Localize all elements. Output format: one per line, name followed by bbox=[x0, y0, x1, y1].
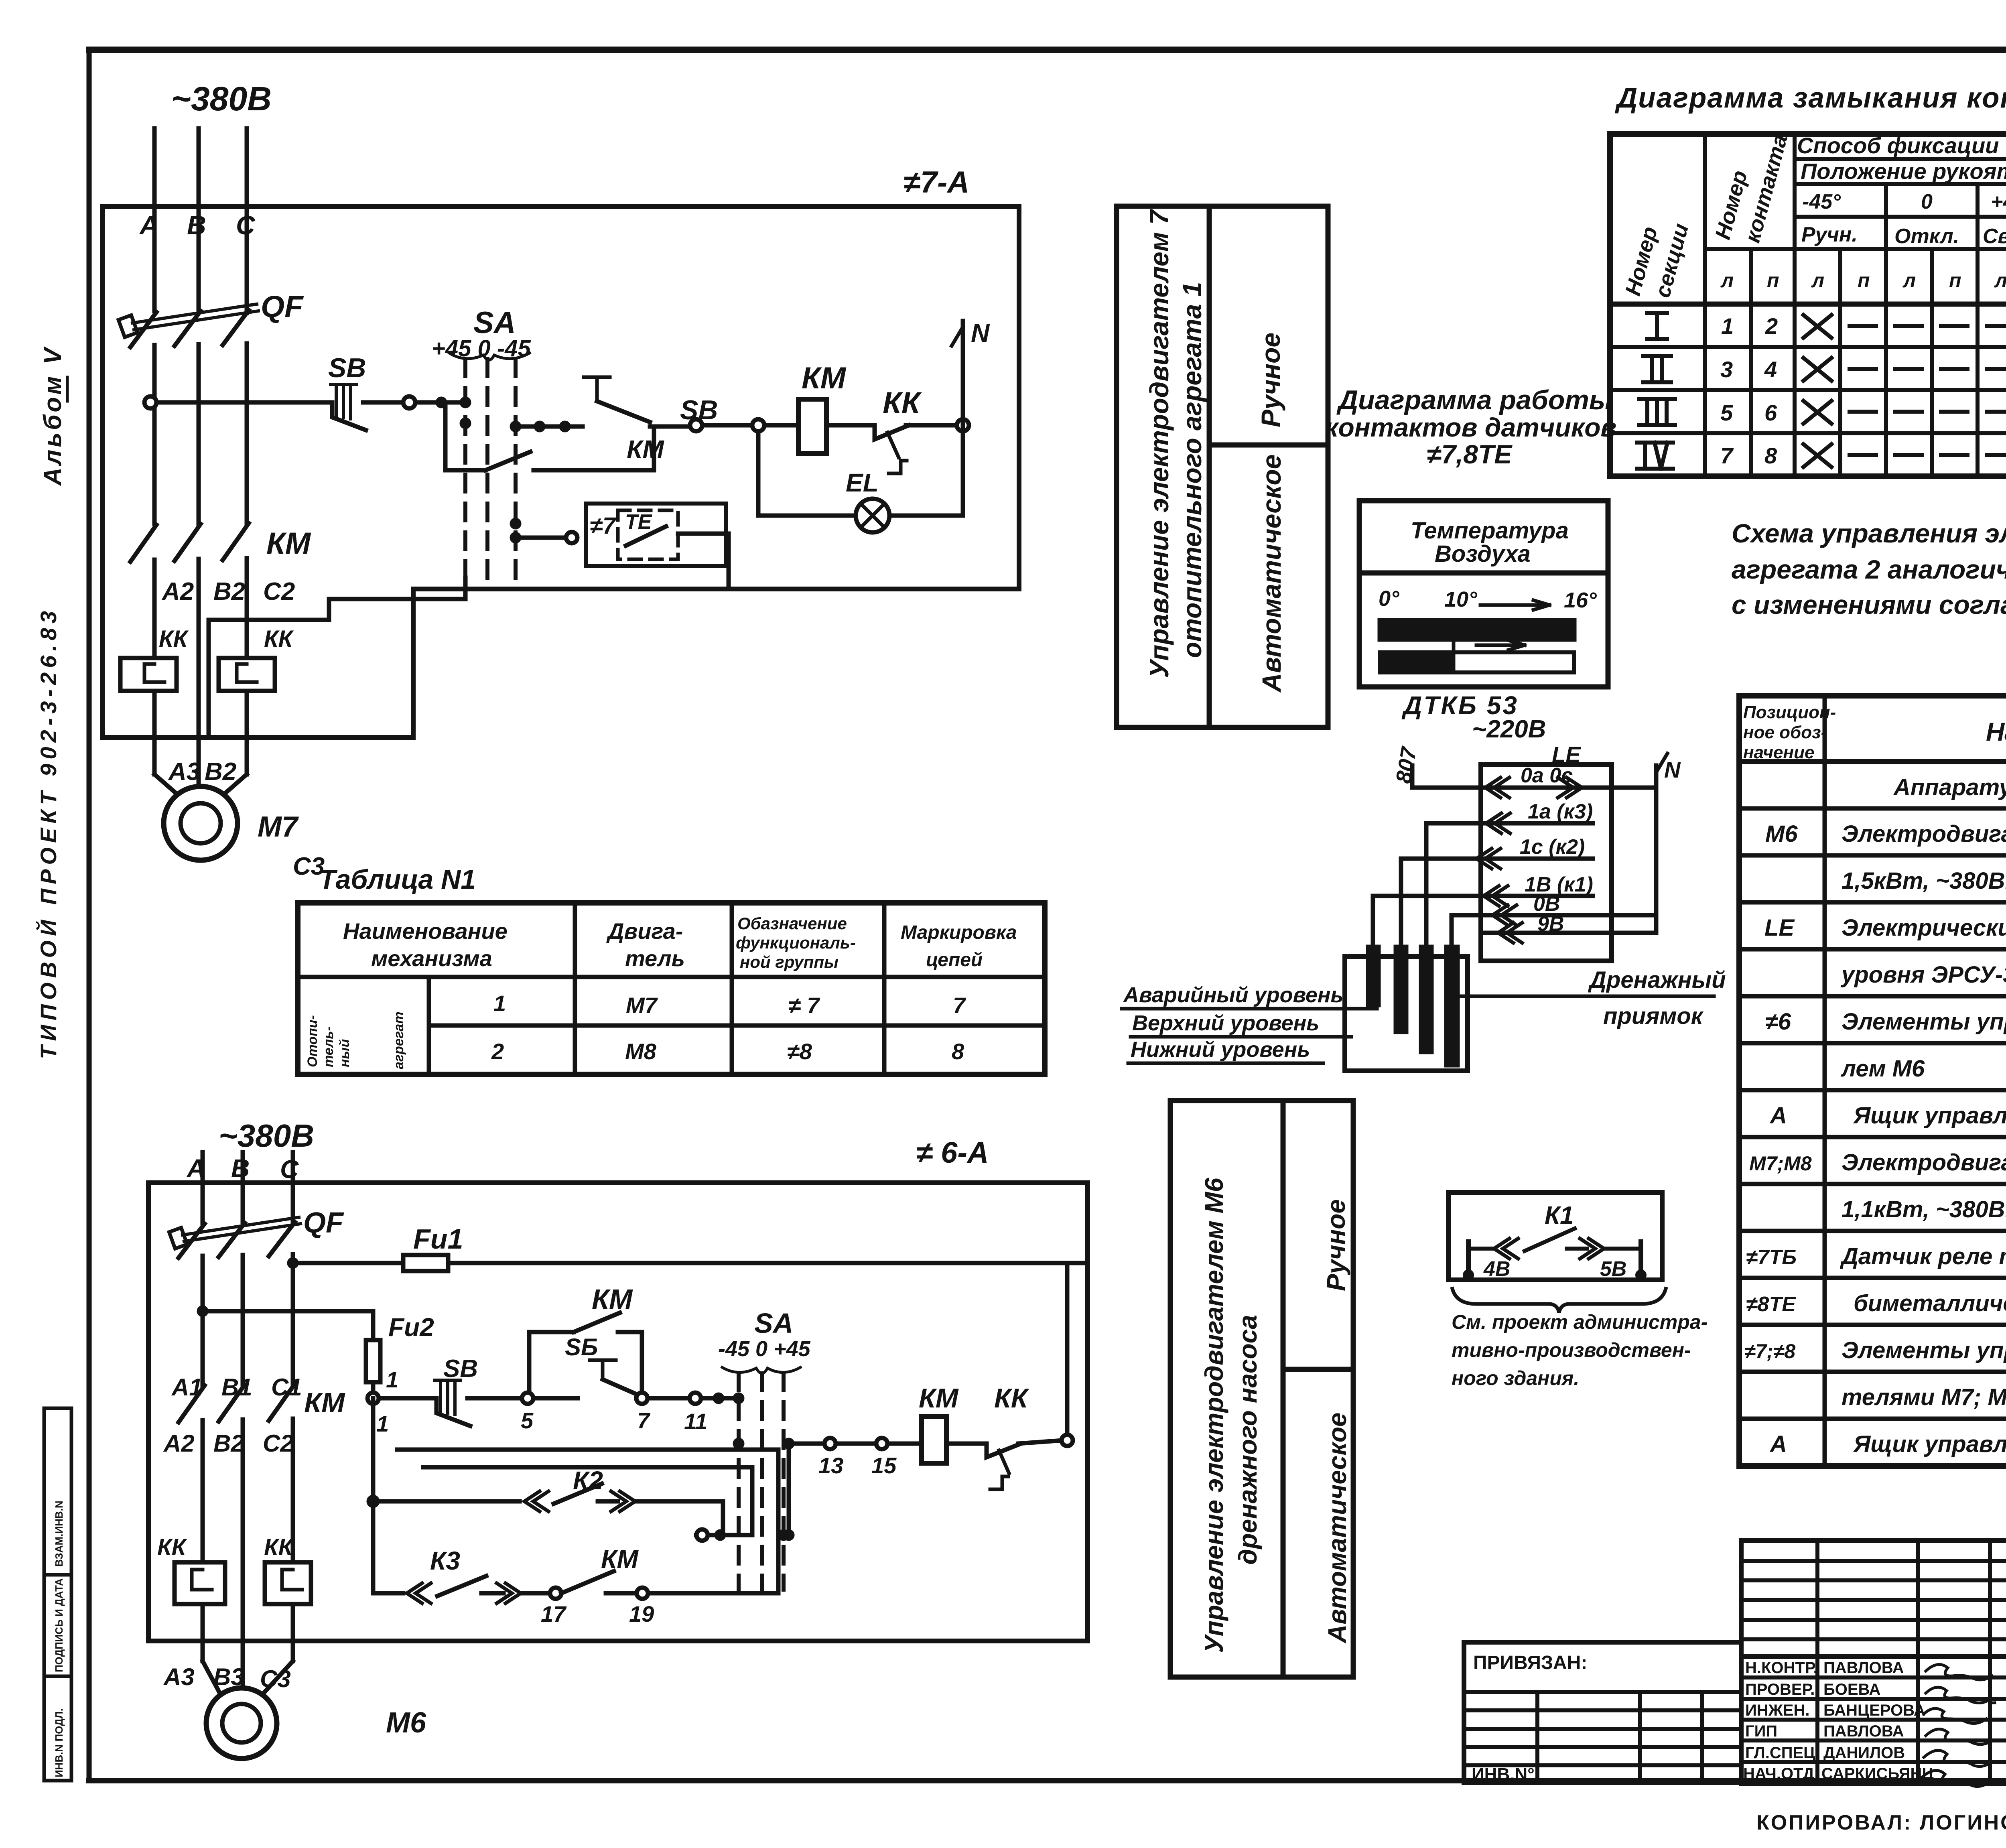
svg-text:К3: К3 bbox=[430, 1546, 460, 1575]
svg-text:11: 11 bbox=[684, 1409, 707, 1434]
svg-text:≠7: ≠7 bbox=[590, 513, 617, 539]
svg-text:SA: SA bbox=[754, 1308, 793, 1339]
svg-text:1,1кВт, ~380В.: 1,1кВт, ~380В. bbox=[1842, 1196, 2006, 1223]
svg-text:1: 1 bbox=[493, 991, 506, 1016]
svg-text:Наименование: Наименование bbox=[1986, 717, 2006, 746]
svg-text:Ручное: Ручное bbox=[1256, 333, 1285, 427]
svg-text:Ящик управления ЯУ 5113-03 А2: Ящик управления ЯУ 5113-03 А2Н bbox=[1853, 1431, 2006, 1457]
svg-text:15: 15 bbox=[871, 1453, 897, 1478]
svg-text:КК: КК bbox=[883, 386, 922, 420]
svg-text:агрегат: агрегат bbox=[391, 1011, 406, 1069]
svg-text:А: А bbox=[1769, 1431, 1787, 1457]
svg-text:В2: В2 bbox=[205, 758, 236, 786]
svg-text:контактов датчиков: контактов датчиков bbox=[1325, 412, 1616, 442]
svg-text:ный: ный bbox=[337, 1039, 352, 1067]
svg-text:3: 3 bbox=[1720, 357, 1733, 382]
svg-text:ИНЖЕН.: ИНЖЕН. bbox=[1745, 1702, 1809, 1719]
svg-text:А: А bbox=[186, 1154, 205, 1183]
svg-text:М6: М6 bbox=[1765, 821, 1798, 847]
svg-text:≠ 6-А: ≠ 6-А bbox=[916, 1136, 989, 1169]
svg-text:С: С bbox=[236, 210, 256, 240]
svg-text:Элементы управления электродви: Элементы управления электродвига- bbox=[1842, 1337, 2006, 1363]
svg-text:~220В: ~220В bbox=[1472, 715, 1546, 743]
svg-text:уровня ЭРСУ-3: уровня ЭРСУ-3 bbox=[1840, 962, 2006, 988]
svg-text:функциональ-: функциональ- bbox=[736, 933, 856, 952]
svg-text:п: п bbox=[1858, 269, 1870, 292]
svg-text:Наименование: Наименование bbox=[343, 918, 508, 944]
svg-text:ПРОВЕР.: ПРОВЕР. bbox=[1745, 1681, 1815, 1698]
svg-text:EL: EL bbox=[846, 468, 879, 497]
svg-text:SA: SA bbox=[473, 306, 516, 340]
svg-text:5В: 5В bbox=[1600, 1257, 1626, 1281]
svg-text:В1: В1 bbox=[221, 1374, 252, 1401]
svg-text:А2: А2 bbox=[163, 1430, 195, 1457]
svg-text:≠7,8ТЕ: ≠7,8ТЕ bbox=[1427, 439, 1513, 469]
svg-text:Позицион-: Позицион- bbox=[1743, 703, 1836, 722]
svg-text:телями М7; М8.: телями М7; М8. bbox=[1842, 1384, 2006, 1410]
svg-text:0а 0с: 0а 0с bbox=[1521, 764, 1573, 787]
svg-text:КК: КК bbox=[159, 626, 189, 652]
svg-text:цепей: цепей bbox=[926, 949, 983, 971]
svg-text:17: 17 bbox=[541, 1601, 567, 1627]
svg-text:В2: В2 bbox=[213, 578, 245, 605]
svg-text:Способ фиксации С: Способ фиксации С bbox=[1797, 133, 2006, 158]
svg-text:ТЕ: ТЕ bbox=[625, 510, 652, 534]
svg-text:Дренажный: Дренажный bbox=[1588, 967, 1726, 993]
svg-text:ПОДПИСЬ И ДАТА: ПОДПИСЬ И ДАТА bbox=[53, 1578, 65, 1672]
svg-text:Fu1: Fu1 bbox=[413, 1223, 463, 1255]
svg-text:ИНВ.N°: ИНВ.N° bbox=[1472, 1765, 1535, 1784]
svg-text:1,5кВт, ~380В.: 1,5кВт, ~380В. bbox=[1842, 868, 2006, 894]
svg-text:4В: 4В bbox=[1483, 1257, 1510, 1281]
svg-text:4: 4 bbox=[1764, 357, 1777, 382]
svg-text:+45°: +45° bbox=[1991, 190, 2006, 213]
svg-text:л: л bbox=[1902, 269, 1916, 292]
svg-text:1: 1 bbox=[1721, 313, 1734, 339]
svg-text:~380В: ~380В bbox=[219, 1118, 314, 1153]
svg-text:Положение рукоятки: Положение рукоятки bbox=[1801, 158, 2006, 184]
svg-text:1: 1 bbox=[386, 1367, 398, 1392]
svg-text:В: В bbox=[187, 210, 206, 240]
svg-text:Двига-: Двига- bbox=[606, 918, 683, 944]
svg-text:Электродвигатель типа АО2-12-2: Электродвигатель типа АО2-12-2 bbox=[1842, 1149, 2006, 1176]
svg-text:САРКИСЬЯНЦ: САРКИСЬЯНЦ bbox=[1821, 1765, 1934, 1783]
svg-text:Маркировка: Маркировка bbox=[901, 922, 1017, 943]
svg-text:Н.КОНТР.: Н.КОНТР. bbox=[1745, 1659, 1818, 1677]
svg-text:Диаграмма замыкания контактов: Диаграмма замыкания контактов переключат… bbox=[1614, 82, 2006, 114]
svg-text:Схема управления электродвиг: Схема управления электродвигателем М8 от… bbox=[1732, 518, 2006, 548]
svg-text:КМ: КМ bbox=[802, 361, 847, 395]
svg-text:л: л bbox=[1720, 269, 1734, 292]
svg-text:N: N bbox=[1664, 757, 1681, 782]
svg-text:БАНЦЕРОВА: БАНЦЕРОВА bbox=[1823, 1702, 1925, 1719]
svg-text:ИНВ.N ПОДЛ.: ИНВ.N ПОДЛ. bbox=[53, 1708, 65, 1777]
svg-text:С: С bbox=[280, 1155, 299, 1184]
svg-text:ВЗАМ.ИНВ.N: ВЗАМ.ИНВ.N bbox=[53, 1501, 65, 1567]
svg-text:А3: А3 bbox=[163, 1663, 195, 1690]
svg-text:19: 19 bbox=[629, 1601, 654, 1627]
svg-text:≠ 7: ≠ 7 bbox=[788, 993, 820, 1018]
svg-text:механизма: механизма bbox=[371, 946, 492, 971]
svg-text:Отопи-: Отопи- bbox=[305, 1015, 320, 1067]
svg-text:7: 7 bbox=[953, 993, 966, 1018]
svg-text:п: п bbox=[1767, 269, 1779, 292]
svg-text:13: 13 bbox=[818, 1453, 843, 1478]
svg-text:А: А bbox=[1769, 1103, 1787, 1129]
svg-text:КМ: КМ bbox=[919, 1383, 959, 1413]
svg-text:≠8ТЕ: ≠8ТЕ bbox=[1746, 1293, 1796, 1316]
svg-text:М8: М8 bbox=[625, 1039, 657, 1064]
svg-text:Аппаратура по месту: Аппаратура по месту bbox=[1893, 774, 2006, 800]
svg-text:А3: А3 bbox=[168, 758, 200, 786]
svg-text:Верхний уровень: Верхний уровень bbox=[1132, 1011, 1319, 1035]
svg-text:В2: В2 bbox=[213, 1430, 244, 1457]
svg-text:М7;М8: М7;М8 bbox=[1749, 1152, 1812, 1175]
svg-text:≠8: ≠8 bbox=[787, 1039, 812, 1064]
svg-text:Воздуха: Воздуха bbox=[1435, 541, 1531, 567]
svg-text:л: л bbox=[1994, 269, 2006, 292]
svg-text:С1: С1 bbox=[271, 1374, 302, 1401]
svg-text:М7: М7 bbox=[258, 811, 299, 843]
svg-text:~380В: ~380В bbox=[171, 80, 272, 118]
svg-text:6: 6 bbox=[1764, 400, 1777, 425]
svg-text:К1: К1 bbox=[1545, 1202, 1574, 1229]
svg-text:С3: С3 bbox=[260, 1665, 291, 1692]
svg-text:БОЕВА: БОЕВА bbox=[1823, 1681, 1880, 1698]
svg-text:Fu2: Fu2 bbox=[388, 1313, 434, 1342]
svg-text:С2: С2 bbox=[263, 578, 295, 605]
svg-text:2: 2 bbox=[1765, 313, 1778, 339]
svg-text:Электрический регулятор-сигнал: Электрический регулятор-сигнализатор bbox=[1842, 915, 2006, 941]
svg-text:В3: В3 bbox=[213, 1663, 244, 1690]
svg-text:Аварийный уровень: Аварийный уровень bbox=[1123, 983, 1344, 1007]
svg-text:Альбом V: Альбом V bbox=[39, 345, 67, 486]
svg-text:LE: LE bbox=[1764, 915, 1795, 941]
svg-text:≠7;≠8: ≠7;≠8 bbox=[1744, 1340, 1795, 1363]
svg-text:Автоматическое: Автоматическое bbox=[1323, 1412, 1352, 1644]
svg-text:16°: 16° bbox=[1564, 588, 1597, 612]
svg-text:КК: КК bbox=[264, 626, 294, 652]
svg-text:НАЧ.ОТД: НАЧ.ОТД bbox=[1743, 1765, 1814, 1783]
svg-text:Ручн.: Ручн. bbox=[1801, 223, 1858, 246]
svg-text:SБ: SБ bbox=[565, 1334, 598, 1361]
svg-text:дренажного насоса: дренажного насоса bbox=[1233, 1315, 1262, 1565]
svg-text:ДАНИЛОВ: ДАНИЛОВ bbox=[1823, 1744, 1905, 1762]
svg-text:Обазначение: Обазначение bbox=[737, 914, 847, 933]
svg-text:КК: КК bbox=[264, 1534, 294, 1560]
svg-text:Нижний уровень: Нижний уровень bbox=[1131, 1038, 1310, 1062]
svg-text:В: В bbox=[231, 1154, 250, 1183]
svg-text:1а (к3): 1а (к3) bbox=[1528, 800, 1593, 823]
svg-text:тель: тель bbox=[625, 946, 685, 971]
svg-text:ПАВЛОВА: ПАВЛОВА bbox=[1823, 1659, 1904, 1677]
svg-text:КК: КК bbox=[157, 1534, 187, 1560]
svg-text:А1: А1 bbox=[171, 1374, 203, 1401]
svg-text:Ручное: Ручное bbox=[1322, 1199, 1350, 1291]
svg-text:≠7ТБ: ≠7ТБ bbox=[1746, 1246, 1797, 1269]
svg-text:с изменениями согласно табл: с изменениями согласно таблице N1 bbox=[1732, 590, 2006, 619]
svg-text:агрегата 2 аналогична схеме: агрегата 2 аналогична схеме управления а… bbox=[1732, 554, 2006, 584]
svg-text:М6: М6 bbox=[386, 1707, 426, 1739]
svg-text:807: 807 bbox=[1391, 744, 1421, 785]
svg-text:А2: А2 bbox=[161, 578, 194, 605]
svg-text:9В: 9В bbox=[1537, 912, 1564, 936]
svg-text:КМ: КМ bbox=[592, 1283, 633, 1315]
svg-text:Управление электродвигателем: Управление электродвигателем 7 bbox=[1144, 209, 1174, 678]
svg-text:лем М6: лем М6 bbox=[1840, 1056, 1925, 1082]
svg-text:л: л bbox=[1811, 269, 1824, 292]
svg-text:Откл.: Откл. bbox=[1894, 225, 1959, 248]
svg-text:отопительного агрегата 1: отопительного агрегата 1 bbox=[1177, 282, 1207, 658]
svg-text:Электродвигатель типа АОЛ2-22-: Электродвигатель типа АОЛ2-22-4 bbox=[1842, 821, 2006, 847]
svg-text:С2: С2 bbox=[263, 1430, 294, 1457]
svg-text:≠7-А: ≠7-А bbox=[904, 165, 969, 199]
svg-text:QF: QF bbox=[261, 290, 304, 324]
svg-text:КОПИРОВАЛ: ЛОГИНОВА: КОПИРОВАЛ: ЛОГИНОВА bbox=[1756, 1811, 2006, 1834]
svg-text:ТИПОВОЙ ПРОЕКТ 902-3-26.83: ТИПОВОЙ ПРОЕКТ 902-3-26.83 bbox=[36, 607, 61, 1059]
svg-text:1с (к2): 1с (к2) bbox=[1520, 835, 1585, 859]
svg-text:7: 7 bbox=[1720, 443, 1734, 468]
svg-text:LE: LE bbox=[1552, 742, 1581, 767]
svg-text:Датчик реле температуры камерн: Датчик реле температуры камерный bbox=[1840, 1243, 2006, 1269]
svg-text:5: 5 bbox=[1720, 400, 1733, 425]
svg-text:КМ: КМ bbox=[627, 435, 664, 464]
svg-text:-45°: -45° bbox=[1802, 190, 1841, 213]
svg-text:начение: начение bbox=[1743, 743, 1814, 762]
svg-text:Автоматическое: Автоматическое bbox=[1257, 455, 1286, 693]
svg-text:ГИП: ГИП bbox=[1745, 1722, 1777, 1740]
svg-text:2: 2 bbox=[491, 1039, 504, 1064]
svg-text:приямок: приямок bbox=[1603, 1003, 1704, 1029]
svg-text:≠6: ≠6 bbox=[1765, 1009, 1791, 1035]
svg-text:0°: 0° bbox=[1379, 587, 1399, 611]
svg-text:ной группы: ной группы bbox=[740, 952, 839, 971]
svg-text:Свлок.: Свлок. bbox=[1983, 225, 2006, 248]
svg-text:тель-: тель- bbox=[321, 1026, 336, 1067]
svg-text:КК: КК bbox=[994, 1383, 1029, 1413]
svg-text:0: 0 bbox=[1921, 190, 1933, 213]
svg-text:7: 7 bbox=[637, 1408, 651, 1433]
svg-text:А: А bbox=[139, 210, 159, 240]
svg-text:Температура: Температура bbox=[1411, 518, 1569, 544]
svg-text:8: 8 bbox=[952, 1039, 964, 1064]
svg-text:ного здания.: ного здания. bbox=[1452, 1367, 1579, 1389]
svg-text:QF: QF bbox=[303, 1207, 344, 1239]
svg-text:Таблица N1: Таблица N1 bbox=[319, 864, 476, 895]
svg-text:Диаграмма работы: Диаграмма работы bbox=[1336, 385, 1612, 415]
svg-text:+45 0 -45: +45 0 -45 bbox=[432, 335, 531, 361]
svg-text:КМ: КМ bbox=[266, 526, 311, 560]
svg-text:1: 1 bbox=[376, 1411, 389, 1436]
svg-text:8: 8 bbox=[1764, 443, 1777, 468]
svg-text:ГЛ.СПЕЦ.: ГЛ.СПЕЦ. bbox=[1745, 1744, 1820, 1762]
svg-text:К2: К2 bbox=[573, 1466, 603, 1495]
svg-text:10°: 10° bbox=[1444, 587, 1477, 611]
svg-text:п: п bbox=[1949, 269, 1961, 292]
svg-text:биметаллический ДТКБ-53: биметаллический ДТКБ-53 bbox=[1854, 1290, 2006, 1316]
svg-text:ное обоз-: ное обоз- bbox=[1743, 723, 1827, 742]
svg-text:ПРИВЯЗАН:: ПРИВЯЗАН: bbox=[1473, 1652, 1587, 1673]
svg-text:N: N bbox=[971, 319, 990, 347]
svg-text:Ящик управления ЯУ5113-03А3Л: Ящик управления ЯУ5113-03А3Л bbox=[1853, 1103, 2006, 1129]
svg-text:5: 5 bbox=[521, 1408, 534, 1433]
svg-text:ПАВЛОВА: ПАВЛОВА bbox=[1823, 1722, 1904, 1740]
svg-text:тивно-производствен-: тивно-производствен- bbox=[1452, 1339, 1691, 1361]
svg-text:Управление электродвигателем: Управление электродвигателем М6 bbox=[1200, 1178, 1228, 1653]
svg-text:SB: SB bbox=[328, 353, 366, 383]
svg-text:Элементы управления электродви: Элементы управления электродвигате- bbox=[1842, 1009, 2006, 1035]
svg-text:SB: SB bbox=[680, 395, 718, 425]
svg-text:SB: SB bbox=[443, 1355, 478, 1383]
svg-text:М7: М7 bbox=[626, 993, 658, 1018]
svg-text:См. проект администра-: См. проект администра- bbox=[1452, 1311, 1708, 1333]
svg-text:КМ: КМ bbox=[601, 1545, 639, 1574]
svg-text:-45 0 +45: -45 0 +45 bbox=[718, 1337, 811, 1361]
svg-text:КМ: КМ bbox=[304, 1387, 345, 1418]
